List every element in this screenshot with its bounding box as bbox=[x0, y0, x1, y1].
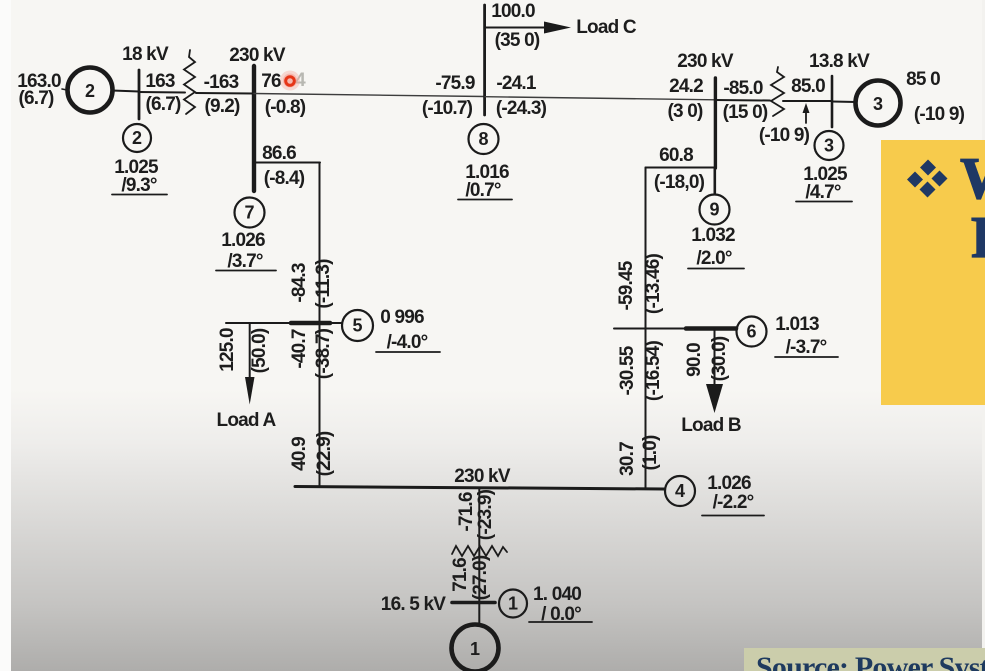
svg-text:Load C: Load C bbox=[576, 17, 637, 38]
svg-text:9: 9 bbox=[709, 200, 719, 220]
wire Load A drop bbox=[245, 323, 255, 405]
label angle -2.2 bbox=[702, 492, 764, 516]
svg-text:Load B: Load B bbox=[681, 415, 741, 436]
wire line 9-6 vertical bbox=[645, 168, 647, 489]
wire line 7-5 vertical bbox=[319, 163, 321, 487]
wire bus 3 to G3 bbox=[832, 101, 856, 104]
svg-text:30.7: 30.7 bbox=[617, 442, 638, 476]
label angle 9.3 bbox=[112, 175, 167, 196]
svg-text:(35 0): (35 0) bbox=[495, 30, 540, 51]
svg-text:-30.55: -30.55 bbox=[617, 345, 638, 395]
svg-text:5: 5 bbox=[352, 316, 362, 336]
svg-text:(9.2): (9.2) bbox=[204, 96, 240, 117]
svg-text:(22.9): (22.9) bbox=[314, 431, 335, 476]
svg-text:/3.7°: /3.7° bbox=[227, 251, 262, 272]
svg-text:125.0: 125.0 bbox=[217, 328, 238, 372]
wire line 7-5 horizontal bbox=[254, 162, 320, 164]
bus 2 bar (18 kV) bbox=[138, 70, 141, 119]
svg-text:(15 0): (15 0) bbox=[723, 102, 768, 123]
svg-text:/4.7°: /4.7° bbox=[805, 182, 840, 203]
svg-text:100.0: 100.0 bbox=[491, 1, 535, 22]
wire transformer T39 to bus 3 bbox=[783, 100, 831, 102]
svg-text:230 kV: 230 kV bbox=[454, 466, 511, 487]
yellow callout box bbox=[881, 140, 985, 405]
svg-text:(-11.3): (-11.3) bbox=[313, 259, 334, 309]
svg-text:86.6: 86.6 bbox=[262, 143, 296, 164]
wire bus 9 stub to node 9 bbox=[713, 168, 716, 194]
svg-text:(-10 9): (-10 9) bbox=[759, 125, 810, 146]
label angle 0.7 bbox=[458, 180, 512, 201]
svg-text:0 996: 0 996 bbox=[380, 307, 424, 328]
svg-text:Load A: Load A bbox=[217, 410, 277, 431]
svg-text:(30.0): (30.0) bbox=[709, 336, 730, 381]
svg-text:8: 8 bbox=[478, 129, 488, 149]
bus 3 bar bbox=[831, 76, 834, 127]
svg-text:/2.0°: /2.0° bbox=[696, 248, 731, 269]
scan right white strip bbox=[982, 0, 985, 671]
svg-text:W: W bbox=[960, 145, 985, 211]
svg-text:(3 0): (3 0) bbox=[667, 101, 703, 122]
bus 6 bar bbox=[614, 328, 736, 330]
svg-text:4: 4 bbox=[675, 481, 685, 501]
wire line 7-8 bbox=[254, 94, 484, 97]
svg-text:7: 7 bbox=[244, 203, 254, 223]
svg-text:(-13.46): (-13.46) bbox=[643, 253, 664, 314]
svg-text:-84.3: -84.3 bbox=[289, 263, 310, 303]
svg-text:3: 3 bbox=[824, 136, 834, 156]
svg-text:-40.7: -40.7 bbox=[289, 329, 310, 369]
svg-text:2: 2 bbox=[85, 81, 95, 101]
svg-text:2: 2 bbox=[132, 128, 142, 148]
svg-text:(-10.7): (-10.7) bbox=[422, 98, 473, 119]
svg-text:(-8.4): (-8.4) bbox=[264, 168, 305, 189]
node circle 9 bbox=[700, 195, 730, 225]
node circle 6 bbox=[737, 317, 767, 347]
red highlight dot bbox=[280, 71, 300, 91]
svg-text:3: 3 bbox=[873, 94, 883, 114]
svg-text:/-3.7°: /-3.7° bbox=[786, 337, 827, 358]
wire tick from label to G2 bbox=[62, 89, 67, 90]
svg-text:(50.0): (50.0) bbox=[249, 328, 270, 373]
svg-text:(-38.7): (-38.7) bbox=[313, 328, 334, 379]
generator G3 circle bbox=[856, 81, 901, 126]
scan left white strip bbox=[0, 0, 11, 671]
svg-text:1. 040: 1. 040 bbox=[533, 584, 581, 605]
svg-text:-75.9: -75.9 bbox=[435, 73, 475, 94]
svg-text:-24.1: -24.1 bbox=[496, 73, 537, 94]
svg-text:1.032: 1.032 bbox=[691, 225, 735, 246]
svg-text:90.0: 90.0 bbox=[684, 343, 705, 377]
svg-text:1.026: 1.026 bbox=[707, 473, 751, 494]
node circle 1 bbox=[499, 590, 527, 618]
svg-text:(6.7): (6.7) bbox=[145, 94, 181, 115]
wire line 9-6 horizontal bbox=[646, 167, 716, 169]
bus 1 bar bbox=[452, 601, 495, 605]
svg-text:85 0: 85 0 bbox=[906, 69, 940, 90]
wire G2 to bus 2 bbox=[112, 91, 139, 92]
svg-text:1.013: 1.013 bbox=[775, 314, 819, 335]
svg-text:60.8: 60.8 bbox=[659, 145, 693, 166]
svg-text:24.2: 24.2 bbox=[669, 76, 703, 97]
svg-text:71.6: 71.6 bbox=[450, 558, 471, 592]
svg-text:76: 76 bbox=[261, 71, 281, 92]
node circle 7 bbox=[235, 198, 265, 228]
svg-text:1.026: 1.026 bbox=[221, 230, 265, 251]
svg-text:-71.6: -71.6 bbox=[456, 492, 477, 532]
bus 7 bar (230 kV) bbox=[252, 66, 256, 191]
label angle -4.0 bbox=[376, 332, 440, 353]
svg-text:/9.3°: /9.3° bbox=[121, 175, 156, 196]
svg-text:1: 1 bbox=[508, 594, 518, 614]
source citation bar bbox=[744, 648, 985, 671]
transformer T3-9 zigzag bbox=[771, 67, 784, 116]
diamond bullet icon bbox=[907, 160, 948, 198]
svg-text:(-23.9): (-23.9) bbox=[475, 489, 496, 540]
svg-text:13.8 kV: 13.8 kV bbox=[809, 51, 870, 72]
tap arrow up bbox=[803, 103, 810, 123]
label angle 4.7 bbox=[796, 182, 852, 203]
svg-text:16. 5 kV: 16. 5 kV bbox=[381, 594, 447, 615]
label angle 0.0 bbox=[529, 604, 592, 625]
transformer T1-4 zigzag bbox=[452, 546, 507, 556]
bus 8 bar bbox=[483, 5, 486, 115]
svg-text:(-16.54): (-16.54) bbox=[643, 340, 664, 401]
generator G2 circle bbox=[68, 68, 113, 113]
node circle 5 bbox=[342, 310, 373, 341]
svg-text:18 kV: 18 kV bbox=[122, 44, 169, 65]
node circle 8 bbox=[469, 124, 499, 154]
bus 5 bar bbox=[226, 322, 342, 324]
svg-text:163: 163 bbox=[145, 71, 175, 92]
wire Load C arrow bbox=[485, 22, 571, 34]
svg-text:230 kV: 230 kV bbox=[677, 51, 734, 72]
transformer T2-7 zigzag bbox=[184, 50, 195, 114]
node circle 4 bbox=[665, 476, 695, 506]
wire line 8-9 bbox=[485, 97, 715, 100]
bus 9 bar bbox=[714, 78, 717, 168]
node circle 3 bbox=[815, 131, 844, 160]
node circle 2 bbox=[123, 124, 151, 152]
svg-text:85.0: 85.0 bbox=[791, 76, 825, 97]
svg-text:/0.7°: /0.7° bbox=[465, 180, 500, 201]
svg-text:40.9: 40.9 bbox=[289, 437, 310, 471]
svg-text:F: F bbox=[971, 204, 985, 270]
svg-text:(-18,0): (-18,0) bbox=[654, 172, 705, 193]
svg-text:-59.45: -59.45 bbox=[616, 260, 637, 310]
svg-text:/-2.2°: /-2.2° bbox=[713, 492, 754, 513]
svg-text:-85.0: -85.0 bbox=[723, 78, 763, 99]
svg-text:6: 6 bbox=[746, 322, 756, 342]
svg-text:230 kV: 230 kV bbox=[229, 45, 286, 66]
wire bus 2 to transformer T27 bbox=[139, 91, 185, 94]
svg-text:-163: -163 bbox=[204, 72, 239, 93]
svg-text:(27.0): (27.0) bbox=[470, 555, 491, 600]
svg-text:(-0.8): (-0.8) bbox=[265, 97, 306, 118]
label angle 3.7 bbox=[216, 251, 276, 272]
wire Load B drop bbox=[706, 329, 723, 413]
bus 4 line 230 kV bottom bbox=[295, 487, 664, 490]
svg-text:/-4.0°: /-4.0° bbox=[387, 332, 428, 353]
svg-text:(-10 9): (-10 9) bbox=[914, 104, 965, 125]
label angle -3.7 bbox=[775, 337, 838, 358]
svg-text:(-24.3): (-24.3) bbox=[496, 98, 547, 119]
svg-text:1: 1 bbox=[470, 639, 480, 659]
generator G1 circle bbox=[452, 625, 499, 671]
label angle 2.0 bbox=[688, 248, 744, 269]
wire bus 9 to transformer T39 bbox=[715, 99, 770, 102]
svg-text:(6.7): (6.7) bbox=[18, 88, 54, 109]
wire line 4-1 vertical bbox=[478, 488, 480, 626]
wire transformer T27 to bus 7 bbox=[196, 92, 253, 95]
svg-text:(1.0): (1.0) bbox=[640, 435, 661, 471]
